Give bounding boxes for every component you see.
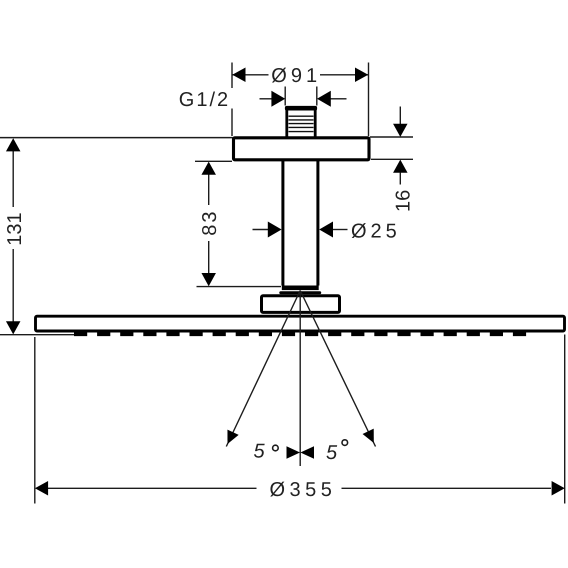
svg-text:Ø355: Ø355: [270, 479, 337, 501]
svg-text:Ø91: Ø91: [271, 65, 321, 87]
svg-text:83: 83: [199, 209, 221, 235]
svg-text:G1/2: G1/2: [179, 89, 230, 111]
svg-text:5: 5: [254, 441, 266, 463]
svg-text:131: 131: [4, 212, 26, 245]
svg-text:16: 16: [393, 190, 415, 212]
svg-text:5: 5: [326, 442, 338, 464]
svg-text:Ø25: Ø25: [351, 221, 401, 243]
